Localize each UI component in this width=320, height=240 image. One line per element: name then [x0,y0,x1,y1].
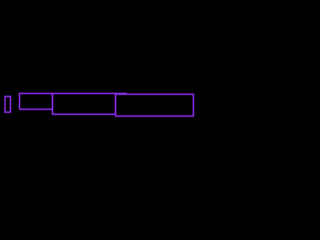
sharp layer [5,93,193,116]
box 2 bottom + right [20,93,53,109]
glow layer [5,93,193,116]
circuit-like highlight boxes drawing [0,0,200,150]
box 4 (large right) [116,94,194,116]
box 2 (medium) top+left [20,93,127,109]
box 3 (wide) bottom + right [53,93,116,114]
box 1 (small left) [5,96,11,112]
